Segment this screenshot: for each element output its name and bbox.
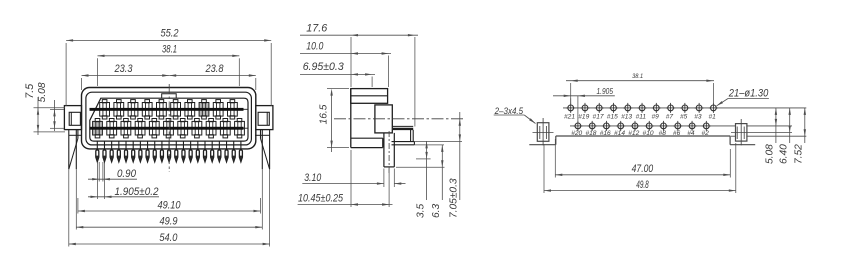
dim 6.40 xyxy=(789,108,791,143)
svg-text:#19: #19 xyxy=(578,114,589,121)
svg-text:49.10: 49.10 xyxy=(158,199,182,211)
dim 49.8 xyxy=(543,144,545,193)
dim 5.08 row pitch xyxy=(54,100,56,131)
svg-text:17.6: 17.6 xyxy=(306,23,327,35)
dim 7.05 centerline to foot xyxy=(459,112,461,200)
left mounting ear xyxy=(64,106,81,130)
svg-text:7.52: 7.52 xyxy=(794,144,805,164)
dim 7.5 ear height xyxy=(37,97,39,135)
svg-text:3.5: 3.5 xyxy=(415,204,426,218)
dim 3.10 pin thickness xyxy=(383,169,385,188)
svg-text:#11: #11 xyxy=(636,114,647,121)
right boss centerline extended (6.40 ref) xyxy=(731,132,792,134)
svg-text:10.0: 10.0 xyxy=(306,41,323,53)
svg-text:#14: #14 xyxy=(614,130,625,137)
svg-text:55.2: 55.2 xyxy=(161,28,180,40)
side bracket arm (thick) xyxy=(393,128,413,130)
svg-text:54.0: 54.0 xyxy=(159,232,178,244)
svg-text:#2: #2 xyxy=(701,130,709,137)
svg-text:3.10: 3.10 xyxy=(304,172,321,184)
svg-text:7.5: 7.5 xyxy=(24,83,36,99)
svg-text:49.9: 49.9 xyxy=(160,216,178,228)
svg-text:#8: #8 xyxy=(659,130,667,137)
dim 0.90 pin width xyxy=(98,162,100,182)
bottom hole row: 10 holes #20..#2 xyxy=(575,123,581,129)
right bracket step below ear xyxy=(255,134,270,136)
bottom hole row centerline xyxy=(570,125,736,127)
svg-text:23.3: 23.3 xyxy=(114,63,133,75)
dim 10.45 front face to pin center xyxy=(350,150,352,207)
svg-text:#7: #7 xyxy=(666,114,674,121)
svg-text:#9: #9 xyxy=(651,114,659,121)
dim 6.3 xyxy=(441,145,443,200)
svg-text:6.95±0.3: 6.95±0.3 xyxy=(303,61,344,73)
svg-text:38.1: 38.1 xyxy=(162,44,177,56)
bottom row contact band xyxy=(90,127,244,130)
side body rear top block xyxy=(351,89,388,104)
svg-text:#5: #5 xyxy=(680,114,688,121)
dim 47.00 xyxy=(554,139,556,178)
svg-text:#3: #3 xyxy=(694,114,702,121)
dim 3.5 xyxy=(426,141,428,200)
svg-text:#18: #18 xyxy=(585,130,596,137)
dim 1.905 pin pitch xyxy=(97,163,99,199)
side body top block inner line xyxy=(351,95,388,97)
bottom contact row (11 contacts) xyxy=(93,121,103,135)
svg-text:#6: #6 xyxy=(673,130,681,137)
dim 23.3 left half xyxy=(82,75,170,77)
svg-text:21–ø1.30: 21–ø1.30 xyxy=(728,88,768,100)
extension line pin tip xyxy=(396,166,445,168)
dim 54.0 overall bracket xyxy=(68,169,70,246)
outline top edge extension (7.52 ref) xyxy=(731,135,736,137)
side bracket arm top edge xyxy=(392,125,413,127)
side solder pin xyxy=(383,133,385,167)
svg-text:#15: #15 xyxy=(607,114,618,121)
top contact row (10 contacts) xyxy=(100,103,110,117)
dim 38.1 hole span (bottom view) xyxy=(570,83,572,104)
svg-text:6.40: 6.40 xyxy=(778,144,789,164)
right mounting ear xyxy=(256,106,273,130)
svg-text:23.8: 23.8 xyxy=(205,63,224,75)
dim 7.52 xyxy=(804,108,806,143)
svg-text:1.905±0.2: 1.905±0.2 xyxy=(115,186,159,198)
left screw boss xyxy=(537,123,549,142)
front shell opening edge with SCART keying slant xyxy=(90,98,248,141)
left bracket leg xyxy=(68,130,70,170)
svg-text:#20: #20 xyxy=(571,130,582,137)
dim 23.8 right half xyxy=(169,75,256,77)
left bracket step below ear xyxy=(69,134,82,136)
svg-text:#16: #16 xyxy=(600,130,611,137)
side snout block xyxy=(375,105,392,133)
extension line bracket foot bottom xyxy=(415,144,444,146)
svg-text:49.8: 49.8 xyxy=(636,179,649,191)
svg-text:7.05±0.3: 7.05±0.3 xyxy=(449,178,460,218)
svg-text:#21: #21 xyxy=(564,114,575,121)
dim 17.6 total depth xyxy=(350,37,352,87)
left ear screw opening xyxy=(69,112,80,125)
top center polarising notch xyxy=(162,94,177,99)
dim 16.5 body height xyxy=(327,88,349,90)
dim 49.10 leg span xyxy=(77,198,79,214)
dim 1.905 stagger pitch xyxy=(570,98,572,103)
right screw boss xyxy=(736,124,747,142)
side bracket down leg xyxy=(410,130,412,142)
dim 49.9 bracket width xyxy=(75,169,77,229)
top hole row: 11 holes #21..#1 xyxy=(568,105,574,111)
right bracket leg xyxy=(269,130,271,170)
front shell outer outline xyxy=(82,88,256,149)
svg-text:5.08: 5.08 xyxy=(765,144,776,164)
dim 55.2 overall width xyxy=(66,39,271,41)
dim 10.0 depth to pin row xyxy=(388,56,390,88)
footprint outline top edge xyxy=(556,135,731,137)
svg-text:#10: #10 xyxy=(643,130,654,137)
side pin centerline (dashed) xyxy=(388,131,390,175)
svg-text:#13: #13 xyxy=(621,114,632,121)
svg-text:#4: #4 xyxy=(687,130,695,137)
side view horizontal centerline xyxy=(334,118,463,120)
footprint outline right step and shelf xyxy=(729,136,731,145)
side bracket foot xyxy=(392,141,415,143)
svg-text:#1: #1 xyxy=(709,114,717,121)
dim 5.08 row pitch (bottom view) xyxy=(775,108,777,143)
svg-text:1.905: 1.905 xyxy=(597,87,614,96)
top hole row centerline xyxy=(563,107,806,109)
side body main outline xyxy=(350,89,352,148)
extension line bracket foot top xyxy=(415,140,462,142)
21 solder pins below shell xyxy=(96,141,98,150)
top row contact band xyxy=(90,108,244,111)
svg-text:0.90: 0.90 xyxy=(117,168,136,180)
dim 6.95 depth of step xyxy=(371,77,373,88)
extension line 3.5 lower ref xyxy=(416,158,431,160)
front shell mid outline xyxy=(86,92,252,145)
dim 38.1 pin span xyxy=(98,55,240,57)
svg-text:47.00: 47.00 xyxy=(632,163,654,175)
svg-text:16.5: 16.5 xyxy=(319,104,330,124)
svg-text:5.08: 5.08 xyxy=(37,82,48,102)
svg-text:38.1: 38.1 xyxy=(632,73,643,80)
footprint outline left step and shelf xyxy=(555,136,557,145)
svg-text:#12: #12 xyxy=(628,130,639,137)
svg-text:#17: #17 xyxy=(593,114,604,121)
svg-text:10.45±0.25: 10.45±0.25 xyxy=(298,193,344,205)
right ear screw opening xyxy=(258,112,269,125)
front view vertical centerline xyxy=(168,84,170,172)
svg-text:6.3: 6.3 xyxy=(431,204,442,218)
